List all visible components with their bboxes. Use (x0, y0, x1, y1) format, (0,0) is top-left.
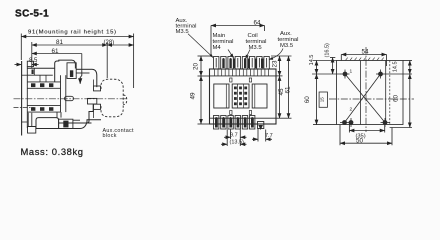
extension line x=31.8 (31, 42, 33, 68)
side view: DIN rail clip (28, 127, 36, 134)
side view: top-left cover box lines (27, 74, 53, 76)
diagonal line a (345, 74, 385, 123)
aux contact block dashed outline (101, 79, 123, 117)
svg-text:M3.5: M3.5 (249, 45, 263, 51)
extension 54 right (386, 55, 388, 67)
side view: arc-cover hump (55, 60, 76, 82)
side view: aux block lower mount (94, 104, 101, 109)
mounting hole top-right (376, 70, 385, 79)
right extension lines (403, 60, 412, 62)
svg-text:91(Mounting rail height 15): 91(Mounting rail height 15) (28, 30, 116, 36)
side view: top screw bump (67, 63, 76, 79)
svg-text:Mass: 0.38kg: Mass: 0.38kg (21, 146, 84, 157)
bottom screw dark slots (215, 118, 254, 128)
pole window right (252, 84, 267, 108)
horizontal centreline (329, 98, 414, 100)
side view: inner bottom line (59, 122, 92, 124)
dim line 91 (21, 36, 133, 38)
inter-pole marks (230, 78, 232, 82)
side view: case step verticals (56, 112, 58, 118)
svg-text:(16.5): (16.5) (325, 43, 331, 58)
extension line x=264.5 (264, 26, 266, 32)
dim line 61 (32, 53, 82, 55)
dim line right 23/45 (279, 56, 281, 76)
rail profile box with 15 (319, 92, 327, 107)
mounting hole bottom-right (381, 118, 390, 127)
top terminal screws (214, 57, 270, 70)
side view: bottom surface line (36, 128, 80, 130)
leader coil (246, 50, 251, 59)
side view: lower terminal band lines (27, 105, 60, 107)
coil terminal screw dark (258, 125, 263, 130)
bottom terminal screws (214, 116, 255, 130)
terminal funnels below top screws (215, 69, 269, 76)
dim line 9.7 (224, 136, 231, 138)
svg-text:9.7: 9.7 (230, 132, 238, 138)
extension line x=211 (210, 26, 212, 56)
diagonal line b (345, 74, 381, 123)
coil terminal bottom box (258, 122, 264, 129)
aux contact block side nub (123, 95, 127, 105)
side view: zigzag leader arrow (80, 71, 82, 84)
svg-text:20: 20 (193, 63, 200, 71)
left extension lines (313, 60, 337, 62)
left dim line (16.5) (332, 58, 334, 75)
svg-text:23: 23 (272, 60, 279, 68)
left dim line 14.5 (316, 61, 318, 75)
extension line x=107.2 (106, 42, 108, 78)
pole window centre (232, 84, 249, 108)
extension line right x=133.6 (133, 34, 135, 89)
svg-text:7.7: 7.7 (265, 133, 273, 139)
side view: aux block upper mount (94, 86, 101, 91)
side view: top surface line (27, 67, 54, 69)
vertical centreline (365, 47, 367, 132)
svg-text:14.5: 14.5 (393, 61, 399, 72)
leader aux right (269, 49, 283, 60)
side view: latch rectangle (88, 98, 97, 104)
front view inner line bottom (210, 117, 277, 119)
side view: lower right ledge (80, 120, 101, 129)
pole window left (214, 84, 229, 108)
mounting hole top-left (341, 70, 350, 79)
hatch on top edge (346, 58, 384, 61)
top screw dark slots (222, 59, 263, 69)
svg-text:1: 1 (350, 69, 353, 75)
svg-text:15: 15 (319, 97, 324, 103)
dim 7.7 (257, 129, 259, 142)
side view: lower band screw marks (31, 107, 35, 111)
side view: right lower outline (87, 105, 94, 124)
side view: top right double lines (76, 68, 91, 70)
side view: case parting verticals (60, 75, 62, 112)
side view: bottom hump (36, 118, 59, 129)
mounting hole bottom-left a (340, 121, 349, 125)
side view: top rear terminal box (27, 61, 33, 66)
left dim line 60 (316, 74, 318, 125)
extension lines right (271, 55, 292, 57)
side view: centre slot (65, 96, 74, 100)
dim line 64 (211, 25, 265, 27)
extension line left x=21.3 (20, 34, 22, 61)
dim line (13.5) (221, 143, 227, 145)
svg-text:60: 60 (304, 96, 311, 104)
front view body outline (210, 69, 277, 124)
centre window grid (237, 84, 239, 108)
side view: bottom second step (73, 119, 80, 121)
bottom dim (35) (348, 125, 350, 133)
side view: top right rounded corner (92, 69, 97, 87)
svg-text:M3.5: M3.5 (176, 29, 190, 35)
dim line 7.7 (252, 138, 258, 140)
svg-text:M3.5: M3.5 (280, 43, 294, 49)
side view: rail edge ticks (22, 74, 28, 76)
bottom dims 9.7 and (13.5) (226, 130, 228, 147)
extension lines left (198, 55, 213, 57)
svg-text:M4: M4 (213, 45, 222, 51)
dim line right 61 (288, 56, 290, 118)
svg-text:61: 61 (285, 86, 292, 94)
dim line (28) (107, 44, 133, 46)
svg-text:14.5: 14.5 (309, 55, 315, 66)
dim line left 20/49 (200, 56, 202, 76)
dim arrows 8.5 (15, 64, 22, 66)
right dim line 14.5/60 (409, 61, 411, 75)
bottom dim 50 (339, 125, 341, 145)
side view: upper band screw marks (31, 83, 35, 87)
extension line x=81.8 (81, 54, 83, 72)
svg-text:SC-5-1: SC-5-1 (15, 9, 49, 20)
leader aux left (188, 34, 213, 58)
dim line 81 (32, 44, 107, 46)
mounting hole bottom-left b (349, 118, 353, 127)
dim line 54 (341, 54, 386, 56)
leader main (228, 50, 234, 58)
side view: front face double verticals (93, 80, 95, 87)
plate inner vertical right (385, 61, 387, 125)
svg-text:49: 49 (190, 92, 197, 100)
plate outline (337, 61, 404, 125)
side view: mounting plate back line (21, 61, 23, 136)
extension 54 left (340, 55, 342, 61)
svg-text:60: 60 (393, 95, 400, 103)
side view: back face line (26, 67, 28, 128)
side view: upper terminal band lines (27, 81, 60, 83)
plate inner vertical left (360, 61, 362, 125)
side view: rail centreline (14, 107, 35, 109)
side view: bottom screw bump (59, 119, 73, 128)
svg-text:2: 2 (350, 107, 353, 113)
side view: centreline (14, 98, 129, 100)
svg-text:50: 50 (356, 138, 364, 145)
svg-text:block: block (103, 133, 117, 139)
front view inner line top (210, 75, 277, 77)
plate inner dashed vertical (389, 61, 391, 125)
